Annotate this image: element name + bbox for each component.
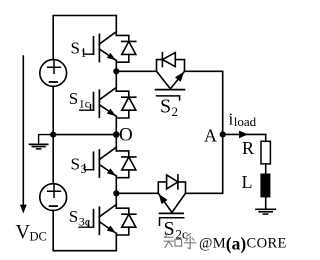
diode of S2c (points right): [167, 175, 178, 189]
svg-text:S: S: [69, 89, 78, 108]
junction dot dc midpoint: [50, 132, 56, 138]
svg-text:load: load: [234, 114, 257, 129]
ground (dc midpoint): [30, 135, 54, 149]
wire inductor to ground: [265, 197, 267, 209]
svg-text:A: A: [204, 126, 217, 146]
wire S1 node to switch S2: [116, 70, 156, 72]
diode D3 (antiparallel with S3): [116, 151, 136, 178]
wire dc rail between sources: [52, 86, 54, 183]
wire S2 to node A branch: [185, 70, 223, 72]
svg-text:3c: 3c: [79, 214, 90, 228]
node A junction dot: [220, 131, 226, 137]
wire S1 emitter to S1c collector: [115, 61, 117, 92]
svg-text:3: 3: [81, 162, 87, 176]
diode D3c (antiparallel with S3c): [116, 208, 136, 235]
wire right vertical branch: [222, 71, 224, 193]
watermark zhihu glyphs: [164, 234, 196, 249]
junction dot S3 emitter node: [113, 190, 119, 196]
svg-text:1c: 1c: [79, 96, 90, 110]
svg-text:V: V: [16, 221, 31, 243]
diode of S2 (points left): [162, 53, 175, 67]
svg-text:@M: @M: [199, 235, 226, 251]
wire S3 node to switch S2c: [116, 192, 158, 194]
svg-text:CORE: CORE: [247, 235, 287, 251]
ground (load): [256, 209, 275, 214]
svg-text:S: S: [160, 96, 171, 118]
wire S3 emitter to S3c collector: [115, 176, 117, 208]
svg-text:1: 1: [81, 46, 87, 60]
diode D1 (antiparallel with S1): [116, 35, 136, 62]
switch S2 (bidirectional IGBT) body: [156, 60, 185, 100]
node O junction dot: [113, 131, 120, 138]
transistor S1 (IGBT): [84, 32, 117, 62]
wire resistor to inductor: [265, 164, 267, 174]
svg-text:S: S: [71, 39, 80, 58]
svg-text:O: O: [119, 125, 133, 146]
inductor L: [260, 174, 270, 198]
wire to resistor: [265, 134, 267, 141]
svg-text:i: i: [229, 109, 234, 128]
svg-text:S: S: [71, 155, 80, 174]
wire S1c emitter to S3 collector (through node O): [115, 116, 117, 151]
transistor S1c (IGBT): [80, 87, 117, 117]
svg-text:DC: DC: [30, 230, 47, 244]
voltage source V2: [40, 184, 67, 211]
wire top rail: [53, 16, 116, 60]
diode D1c (antiparallel with S1c): [116, 91, 136, 118]
svg-text:2: 2: [172, 104, 179, 119]
wire collector branch segment (top to S1): [115, 16, 117, 36]
wire midpoint to node O: [53, 134, 116, 136]
junction dot S1 emitter node: [113, 68, 119, 74]
wire bottom rail: [53, 211, 116, 251]
svg-text:R: R: [242, 138, 254, 158]
wire node A to load with iload arrow: [223, 131, 266, 139]
svg-text:L: L: [242, 172, 253, 192]
voltage source V1: [40, 60, 67, 87]
switch S2c (bidirectional IGBT) body: [158, 182, 185, 225]
wire S3c emitter to bottom rail: [115, 233, 117, 250]
resistor R: [261, 141, 270, 164]
wire S2c to node A branch: [186, 192, 223, 194]
transistor S3c (IGBT): [79, 205, 116, 235]
svg-text:(a): (a): [226, 233, 247, 253]
transistor S3 (IGBT): [85, 147, 117, 177]
svg-text:S: S: [69, 207, 78, 226]
VDC measurement arrow: [20, 56, 27, 214]
